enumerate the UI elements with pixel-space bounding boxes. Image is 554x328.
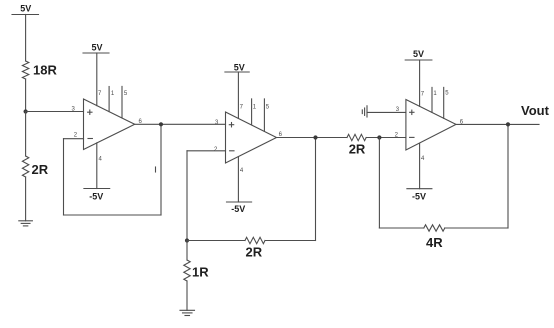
pin 7 stub (U3): [419, 60, 421, 106]
wire U3 output to Vout: [456, 123, 539, 125]
svg-text:4: 4: [240, 168, 244, 174]
pin 1 stub (U3): [431, 87, 433, 112]
pin 1 stub (U1): [108, 87, 110, 112]
svg-text:4: 4: [99, 156, 103, 162]
svg-text:2: 2: [214, 147, 218, 153]
svg-text:2R: 2R: [349, 142, 366, 157]
wire R4 to feedback corner: [265, 240, 316, 242]
node E (U3 inverting node): [377, 135, 381, 139]
node C (U2 inverting node): [185, 238, 189, 242]
svg-text:1R: 1R: [192, 265, 209, 280]
power 5V bar (U1): [83, 43, 109, 53]
svg-text:Vout: Vout: [521, 103, 550, 118]
op-amp U1: [84, 99, 135, 150]
power -5V bar (U1): [84, 189, 110, 202]
node F (U3 output junction): [506, 122, 510, 126]
node B (U1 output junction): [159, 122, 163, 126]
wire feedback to U1 pin 2: [64, 138, 84, 140]
resistor R1 18R: [22, 61, 28, 79]
ground (divider bottom): [19, 221, 33, 226]
svg-text:1: 1: [433, 91, 437, 97]
wire node A to R2: [25, 112, 27, 157]
svg-text:2: 2: [74, 133, 78, 139]
wire U2 pin 2 down to node C: [186, 151, 188, 241]
svg-text:4R: 4R: [426, 235, 443, 250]
svg-text:-5V: -5V: [89, 191, 103, 201]
svg-text:7: 7: [421, 92, 425, 98]
wire U2 output to R5: [277, 137, 348, 139]
pin 7 stub (U2): [237, 72, 239, 118]
power -5V bar (U2): [227, 202, 252, 214]
svg-text:5V: 5V: [20, 4, 31, 14]
power 5V bar (U2): [225, 63, 249, 73]
wire node C to R4: [187, 240, 245, 242]
pin 4 stub (U3): [419, 143, 421, 189]
wire R3 to ground: [186, 281, 188, 310]
wire node C to R3: [186, 241, 188, 261]
wire U2 pin 2 horizontal: [187, 150, 226, 152]
resistor R3 1R: [184, 260, 190, 281]
wire ground to U3 pin 3: [367, 111, 406, 113]
svg-text:18R: 18R: [33, 62, 57, 77]
stray tick mark: [155, 167, 157, 172]
svg-text:7: 7: [240, 104, 244, 110]
power 5V bar (U3): [405, 49, 432, 60]
wire U1 output to U2 pin 3: [135, 123, 226, 125]
wire R2 to ground: [25, 177, 27, 221]
svg-text:2R: 2R: [246, 245, 263, 260]
svg-text:5: 5: [445, 91, 449, 97]
pin 4 stub (U1): [96, 143, 98, 189]
wire U1 feedback right vertical: [160, 124, 162, 215]
node D (U2 output junction): [313, 135, 317, 139]
wire U3 feedback bottom left to R6: [379, 227, 423, 229]
svg-text:7: 7: [98, 91, 102, 97]
resistor R4 2R (U2 feedback): [245, 237, 265, 243]
wire R1 to node A: [25, 79, 27, 112]
resistor R5 2R (U3 input): [347, 134, 366, 140]
wire R6 to feedback corner: [445, 227, 508, 229]
svg-text:5V: 5V: [91, 43, 102, 53]
op-amp U2: [226, 112, 277, 163]
wire 5V rail to R1: [25, 15, 27, 62]
ground (below R3): [180, 310, 195, 315]
op-amp U3: [406, 100, 456, 151]
node A (divider junction): [24, 109, 28, 113]
wire R5 to U3 pin 2: [366, 137, 406, 139]
pin 7 stub (U1): [96, 53, 98, 106]
svg-text:2R: 2R: [32, 162, 49, 177]
power -5V bar (U3): [407, 189, 432, 202]
svg-text:-5V: -5V: [412, 191, 426, 201]
svg-text:1: 1: [111, 91, 115, 97]
svg-text:4: 4: [421, 156, 425, 162]
wire U1 feedback bottom: [64, 214, 162, 216]
wire node A to U1 pin 3: [26, 111, 84, 113]
pin 5 stub (U3): [443, 87, 445, 118]
resistor R2 2R: [22, 156, 28, 177]
power 5V supply (divider top): [12, 4, 39, 15]
svg-text:-5V: -5V: [231, 204, 245, 214]
wire U1 feedback left vertical: [63, 139, 65, 215]
svg-text:3: 3: [215, 120, 219, 126]
svg-text:5: 5: [124, 91, 128, 97]
svg-text:5V: 5V: [234, 63, 245, 73]
svg-text:1: 1: [253, 105, 257, 111]
pin 1 stub (U2): [251, 99, 253, 125]
resistor R6 4R (U3 feedback): [424, 225, 445, 231]
ground (U3 non-inverting input, left-facing): [362, 106, 367, 117]
wire U2 feedback right vertical: [315, 138, 317, 241]
wire U3 feedback right vertical: [507, 124, 509, 228]
pin 4 stub (U2): [237, 157, 239, 202]
svg-text:5V: 5V: [413, 49, 424, 59]
wire node E down (U3 feedback): [378, 138, 380, 229]
pin 5 stub (U2): [263, 99, 265, 131]
pin 5 stub (U1): [121, 86, 123, 118]
svg-text:5: 5: [266, 104, 270, 110]
